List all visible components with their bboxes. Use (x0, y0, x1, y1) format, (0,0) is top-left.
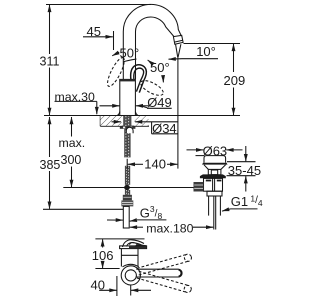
dim max180 right arrow (193, 226, 213, 228)
dim 40 left arrow (99, 289, 116, 291)
plan view: column (121, 249, 138, 267)
deck bottom line (100, 125, 149, 127)
dim d63 right arrow (226, 149, 242, 151)
svg-text:G11/4: G11/4 (231, 194, 263, 210)
label 50deg-2 arrow (162, 78, 165, 82)
dim max180 left arrow (130, 226, 143, 228)
svg-text:50°: 50° (150, 60, 170, 75)
deck left edge (99, 116, 101, 127)
label 50deg-1 arrow (112, 52, 119, 56)
svg-text:max.: max. (59, 136, 86, 150)
svg-text:Ø63: Ø63 (203, 144, 228, 159)
plan view: 106 bottom ext (95, 268, 119, 270)
rod / max300 extension to pop-up (63, 187, 195, 189)
dim 385 line (49, 117, 51, 157)
water stream (176, 45, 178, 58)
label G1-1/4 leader (222, 209, 231, 211)
supply tube (123, 206, 129, 228)
aerator (173, 35, 183, 44)
deck left extension (44, 115, 100, 117)
label G3/8 underline (137, 219, 166, 221)
faucet body (120, 79, 136, 115)
plan view: lever dashed down (137, 271, 192, 293)
svg-text:50°: 50° (120, 46, 140, 61)
lever dashed left (105, 56, 128, 89)
dim 140 left arrow (128, 163, 143, 165)
dim 45 extension (113, 31, 115, 50)
svg-text:106: 106 (92, 248, 114, 263)
label 10deg arrow (169, 58, 183, 61)
svg-text:Ø49: Ø49 (147, 95, 172, 110)
dim 209 line (233, 44, 235, 72)
mounting nut under deck (120, 126, 136, 129)
svg-text:385: 385 (40, 158, 61, 172)
label G3/8 right arrow (130, 220, 136, 221)
plan view: escutcheon circle (121, 266, 140, 285)
dim max300 line (71, 117, 73, 137)
hose segment 3 (125, 190, 130, 195)
dim d63 left arrow (187, 149, 204, 151)
svg-text:10°: 10° (196, 44, 216, 59)
plan view: spout curl (123, 240, 145, 247)
popup knob top ext (196, 155, 205, 157)
popup body slots (206, 180, 211, 182)
plan view: curl tip wedge (134, 244, 147, 248)
dim d34 left arrow (112, 121, 122, 123)
dim 35-45 line bottom (245, 176, 247, 191)
plan view: shoulder dome (123, 264, 139, 267)
popup body seam (212, 178, 214, 191)
hose nut (121, 200, 133, 206)
svg-text:40: 40 (91, 278, 105, 293)
popup neck (208, 169, 221, 174)
plan view: column seam (121, 254, 138, 256)
lever loop solid inner (134, 68, 144, 91)
plan view: 106 top ext (95, 238, 144, 240)
popup neck square (211, 170, 217, 175)
popup body (204, 178, 223, 191)
popup rod knob (194, 182, 204, 192)
svg-text:300: 300 (61, 153, 82, 167)
hose crimp arch (126, 127, 133, 133)
popup taper (204, 165, 226, 170)
svg-text:Ø34: Ø34 (152, 121, 177, 136)
deck hatch left (100, 116, 121, 126)
popup lower tier (208, 196, 210, 216)
dim 311 line (49, 5, 51, 54)
label max30 underline + leader (55, 100, 97, 102)
dim 35-45 ext bottom (227, 175, 256, 177)
plan view: 106 dim line (102, 239, 104, 247)
svg-text:45: 45 (87, 24, 101, 39)
plan view: inner circle (125, 270, 136, 281)
dim 140 left ext tick (126, 159, 128, 169)
label G1-1/4 underline (231, 208, 258, 210)
dim 45 line (83, 36, 113, 38)
dim 311 extension line top (46, 4, 151, 6)
dim 209 top extension (184, 43, 241, 45)
dim 140 right arrow (167, 163, 177, 165)
plan view: lever dashed up (137, 253, 192, 275)
svg-text:35-45: 35-45 (228, 163, 261, 178)
svg-text:max.180: max.180 (146, 221, 193, 235)
faucet base (117, 112, 138, 116)
label d49 underline (147, 107, 172, 109)
dim d49 right arrow + leader (136, 105, 149, 107)
deck top line (100, 115, 240, 117)
stream axis line (177, 57, 179, 169)
50deg arc fragment across tube (124, 59, 137, 62)
hose block (123, 195, 132, 201)
label d34 box (147, 122, 178, 134)
svg-text:140: 140 (144, 157, 166, 172)
spout inner curve (136, 17, 175, 79)
label 10deg underline (182, 58, 218, 60)
label G3/8 left arrow (107, 219, 123, 221)
dim d49 left arrow (100, 105, 120, 107)
threaded shank rod (123, 116, 131, 129)
dim 40 right arrow (131, 289, 151, 291)
dim 35-45 line top (245, 146, 247, 161)
dim 35-45 ext top (227, 161, 256, 163)
dim d34 right arrow (135, 121, 147, 123)
dim 40 left ext (116, 276, 118, 296)
svg-text:209: 209 (224, 73, 246, 88)
plan view: lever bar solid (136, 269, 182, 277)
spout outer curve (123, 4, 181, 79)
hose segment 2 (125, 166, 130, 185)
deck hatch right (134, 116, 148, 126)
popup tail stub (213, 196, 215, 230)
lever dashed right (139, 78, 166, 99)
popup knob (204, 156, 226, 163)
popup flange (200, 174, 226, 178)
svg-text:G3/8: G3/8 (140, 204, 163, 221)
dim 40 right ext (130, 286, 132, 296)
popup band (207, 191, 222, 196)
dim 385 bottom extension (43, 208, 123, 210)
svg-text:max.30: max.30 (55, 90, 95, 104)
lever loop solid outer (131, 65, 147, 93)
plan view: cap plate (120, 246, 147, 249)
svg-text:311: 311 (40, 54, 60, 68)
plan view: lever tip cap (179, 270, 182, 277)
rod junction dot (124, 185, 130, 191)
